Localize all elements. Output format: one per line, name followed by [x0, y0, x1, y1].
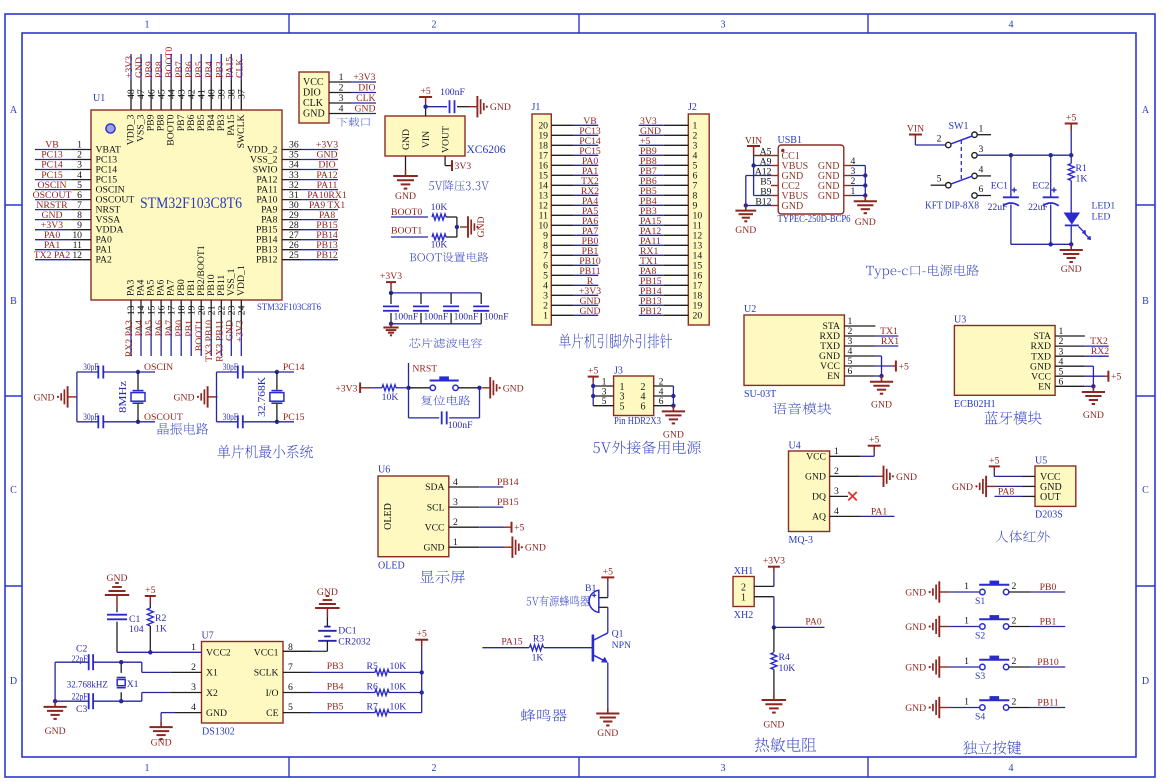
svg-text:3: 3 [979, 144, 984, 155]
wire GND A12-B12 [746, 176, 771, 206]
svg-text:3: 3 [721, 20, 726, 31]
download port pin 4 GND -> GND [303, 104, 376, 120]
label 100nF (reset) [448, 420, 473, 431]
svg-text:32.768kHZ: 32.768kHZ [67, 680, 108, 691]
header J2 pin 17 wire -> PB15 [639, 276, 703, 292]
connector XH1 designator [734, 566, 753, 577]
label 22uF (EC2) [1028, 202, 1049, 213]
svg-text:3: 3 [453, 497, 458, 508]
power +5 above regulator [419, 86, 432, 103]
mcu U1 pin 20 (PB2/BOOT1) bottom wire and net label BOOT1 [194, 245, 207, 356]
header J1 designator [532, 102, 541, 113]
header J1 pin 15 wire -> PA1 [538, 166, 598, 182]
svg-text:C3: C3 [76, 704, 87, 715]
junction bottom-left (filter) [389, 322, 393, 326]
power +5 (U5) [989, 455, 1000, 472]
svg-text:EN: EN [1038, 381, 1051, 392]
wire button S4 to PB11 [1009, 698, 1065, 709]
switch SW1 pin 6 circle [972, 193, 977, 198]
caption 芯片滤波电容 [409, 338, 482, 348]
J3 left rail [592, 383, 594, 406]
svg-text:VCC: VCC [806, 452, 826, 463]
svg-text:R3: R3 [533, 634, 544, 645]
transistor Q1 NPN [593, 633, 608, 663]
label C1 [129, 614, 140, 625]
svg-text:10K: 10K [431, 240, 448, 251]
svg-text:4: 4 [339, 104, 344, 115]
module U2 pin2 wire TX1 [844, 326, 898, 337]
usb USB1 designator [778, 135, 802, 146]
svg-text:10K: 10K [431, 202, 448, 213]
svg-text:3: 3 [191, 682, 196, 693]
svg-text:GND: GND [34, 392, 55, 403]
resistor R6 10K on PB4 row [283, 681, 422, 695]
label C2 [76, 644, 87, 655]
mcu U1 pin 14 (PA4) bottom wire and net label PA4 [134, 280, 147, 356]
capacitor 100nF #2 (filter) [413, 293, 449, 324]
svg-text:KFT DIP-8X8: KFT DIP-8X8 [925, 201, 979, 212]
download port body [299, 72, 329, 123]
mcu U1 pin 22 (PB11) bottom wire and net label RX3 PB11 [214, 275, 227, 362]
svg-text:10K: 10K [390, 681, 407, 692]
module U2 pin 4 (GND) [819, 346, 853, 362]
svg-text:DS1302: DS1302 [202, 727, 235, 738]
svg-text:VIN: VIN [421, 131, 432, 148]
label X1 [127, 679, 139, 690]
wire PA15 to R3 [482, 647, 529, 649]
svg-text:GND: GND [1083, 410, 1104, 421]
wire BOOT0 resistor to corner [446, 217, 457, 227]
usb USB1 body [778, 145, 844, 214]
svg-text:A: A [10, 105, 18, 116]
label 30pF bottom (crystal2) [223, 412, 238, 423]
mcu U1 pin 42 (PB6) top wire and net label PB6 [184, 54, 197, 131]
mcu U1 pin 29 (PA8) with wire and net label PA8 [261, 210, 338, 226]
module U3 pin 6 (EN) [1038, 376, 1063, 392]
svg-text:30pF: 30pF [223, 412, 238, 423]
junction BOOT node [455, 225, 459, 229]
header J2 pin 3 wire -> +5 [639, 136, 698, 152]
wire emitter to gnd [607, 663, 609, 708]
junction usb right 3 [863, 173, 867, 177]
module U4 pin 1 (VCC) [806, 446, 839, 462]
buzzer B1 [589, 590, 599, 612]
ground (DC1) [315, 587, 340, 608]
mcu U1 pin 23 (VSS_1) bottom wire and net label GND [224, 268, 237, 356]
gnd bar tag (U4) [876, 466, 918, 487]
resistor R7 10K on PB5 row [283, 701, 422, 715]
svg-text:DC1: DC1 [338, 626, 356, 637]
svg-text:OSCIN: OSCIN [144, 362, 173, 373]
label B1 [585, 583, 596, 594]
svg-text:2: 2 [432, 763, 437, 774]
caption 复位电路 [421, 396, 470, 406]
label 1K (R1) [1076, 174, 1088, 185]
junction bottom LED [1069, 242, 1073, 246]
power +5 (R5-R7 rail) [415, 629, 428, 647]
junction bottom EC2 [1049, 242, 1053, 246]
svg-text:GND: GND [490, 102, 511, 113]
mcu U1 pin 13 (PA3) bottom wire and net label RX2 PA3 [124, 280, 137, 358]
J3 right rail [672, 386, 674, 406]
module U6 label OLED (rotated) [383, 503, 394, 530]
svg-text:2: 2 [1012, 581, 1017, 592]
button S2 pin numbers [964, 616, 1016, 627]
net label PA15 [501, 636, 522, 647]
module U5 OUT wire PA8 [995, 487, 1036, 498]
caption 5V有源蜂鸣器 [527, 596, 590, 607]
mcu U1 pin 26 (PB13) with wire and net label PB13 [256, 240, 338, 256]
junction R5 rail [420, 670, 424, 674]
svg-text:22uF: 22uF [1028, 202, 1049, 213]
crystal1 left rail [76, 372, 79, 422]
header J1 pin 18 wire -> PC14 [538, 136, 601, 152]
switch SW1 dashed link [960, 140, 962, 180]
module U4 pin 3 (DQ) [812, 486, 839, 502]
junction X1 bottom [119, 699, 123, 703]
svg-text:DQ: DQ [812, 492, 826, 503]
wire NRST to button [409, 387, 431, 389]
label EC1 [991, 181, 1008, 192]
wire X1 top to U7.X1 [121, 662, 201, 672]
svg-text:GND: GND [317, 587, 338, 598]
regulator part name XC6206 [467, 144, 506, 156]
module U2 pin 6 (EN) [827, 366, 852, 382]
net label BOOT1 [391, 226, 422, 237]
svg-text:GND: GND [805, 472, 826, 483]
label NPN [612, 640, 631, 651]
capacitor EC1 22uF [1003, 155, 1019, 244]
svg-text:PB12: PB12 [256, 255, 278, 266]
header J3 inner numbers [620, 382, 646, 413]
ground (buzzer) [596, 708, 619, 739]
svg-text:3V3: 3V3 [455, 161, 472, 172]
svg-text:CLK: CLK [234, 59, 245, 78]
mcu U1 pin 7 (NRST) with wire and net label NRSTR [35, 200, 120, 216]
svg-text:SCL: SCL [427, 502, 445, 513]
button S3 pin numbers [964, 656, 1016, 667]
svg-text:GND: GND [45, 726, 66, 737]
svg-text:4: 4 [453, 477, 458, 488]
rtc U7 right pin 6 (I/O) [266, 682, 293, 699]
button S4 pin numbers [964, 697, 1016, 708]
module U2 part name [744, 389, 776, 400]
mcu U1 pin 24 (VDD_1) bottom wire and net label +3V3 [234, 265, 247, 356]
svg-text:S4: S4 [975, 712, 985, 723]
svg-text:100nF: 100nF [394, 312, 419, 323]
module U4 part name [789, 535, 813, 546]
label 30pF top (crystal1) [83, 362, 98, 373]
module U5 pin name VCC [1040, 472, 1061, 483]
usb USB1 left pin B9 (VBUS) [760, 186, 808, 202]
usb USB1 left pin B12 (GND) [755, 196, 803, 212]
regulator GND pin wire [405, 156, 407, 170]
power tag 3V3 at VOUT [452, 160, 471, 172]
svg-text:6: 6 [659, 396, 664, 407]
module U6 pin 1 (GND) [424, 537, 459, 553]
wire gnd to button S3 [949, 666, 980, 668]
svg-text:30pF: 30pF [83, 412, 98, 423]
module U3 pin 2 (RXD) [1031, 336, 1064, 352]
svg-text:J2: J2 [688, 102, 697, 113]
svg-text:U1: U1 [93, 93, 105, 104]
gnd bar tag (regulator top) [469, 96, 511, 117]
module U6 pin1 wire GND [449, 546, 504, 548]
svg-text:VIN: VIN [745, 135, 762, 146]
download port pin 1 VCC -> +3V3 [303, 72, 376, 88]
header J3 body [614, 376, 654, 416]
mcu U1 pin 41 (PB5) top wire and net label PB5 [194, 54, 207, 131]
header J2 pin 4 wire -> PB9 [639, 146, 698, 162]
regulator pin name VIN [421, 131, 432, 148]
svg-text:Pin HDR2X3: Pin HDR2X3 [614, 416, 661, 427]
label 22uF (EC1) [988, 202, 1009, 213]
header J2 pin 20 wire -> PB12 [639, 306, 703, 322]
junction J3 right pin6 [671, 404, 675, 408]
svg-text:2: 2 [1012, 656, 1017, 667]
svg-text:GND: GND [355, 104, 376, 115]
module U5 body [1035, 466, 1076, 506]
svg-text:2: 2 [432, 20, 437, 31]
capacitor C2 22pF [55, 654, 121, 670]
gnd bar tag (U5) [952, 476, 996, 497]
header J2 pin 5 wire -> PB8 [639, 156, 698, 172]
svg-text:VOUT: VOUT [441, 126, 452, 153]
svg-text:PA1: PA1 [871, 506, 887, 517]
label 10K (BOOT1) [431, 240, 448, 251]
caption Type-c口-电源电路 [866, 265, 979, 279]
svg-text:GND: GND [896, 472, 917, 483]
svg-text:5: 5 [937, 174, 942, 185]
wire cap to GND tag [457, 106, 469, 108]
header J2 body [688, 114, 709, 325]
module U6 part name [378, 561, 405, 572]
svg-text:25: 25 [289, 250, 299, 261]
mcu U1 pin 2 (PC13) with wire and net label PC13 [35, 150, 117, 166]
svg-text:2: 2 [937, 134, 942, 145]
mcu U1 pin 48 (VDD_3) top wire and net label +3V3 [124, 54, 137, 145]
svg-text:+5: +5 [869, 435, 879, 446]
rtc U7 left pin 3 (X2) [191, 682, 218, 699]
wire button S2 to PB1 [1009, 617, 1065, 628]
svg-text:22uF: 22uF [988, 202, 1009, 213]
mcu U1 pin 16 (PA6) bottom wire and net label PA6 [154, 280, 167, 356]
switch SW1 stub pin5 [931, 184, 946, 186]
usb USB1 right pin 1 (GND) [818, 186, 865, 202]
svg-text:D203S: D203S [1035, 510, 1063, 521]
filter caps top rail [391, 289, 481, 293]
svg-text:B: B [1142, 296, 1149, 307]
mcu U1 pin 3 (PC14) with wire and net label PC14 [35, 160, 117, 176]
module U5 GND wire [996, 485, 1035, 487]
header J1 pin 20 wire -> VB [538, 116, 598, 132]
usb USB1 left pin A12 (GND) [755, 166, 803, 182]
header J1 pin 1 wire -> GND [543, 306, 600, 322]
module U3 pin 5 (VCC) [1031, 366, 1063, 382]
svg-text:DIO: DIO [358, 83, 375, 94]
wire VIN node to cap [426, 106, 447, 108]
capacitor 100nF (regulator) [450, 100, 455, 113]
mcu U1 pin 9 (VDDA) with wire and net label +3V3 [35, 220, 123, 236]
power VIN (usb) [745, 135, 762, 155]
rtc U7 designator [202, 631, 214, 642]
svg-text:4: 4 [979, 165, 984, 176]
junction usb right 1 [863, 193, 867, 197]
svg-text:+5: +5 [1066, 113, 1076, 124]
svg-text:U5: U5 [1035, 456, 1047, 467]
button S1 pin numbers [964, 581, 1016, 592]
svg-text:GND: GND [476, 217, 487, 238]
svg-text:1: 1 [964, 697, 969, 708]
header J1 pin 11 wire -> PA5 [539, 206, 599, 222]
ground (power circuit) [1060, 244, 1083, 275]
power +5 (R2) [145, 585, 156, 603]
svg-text:Q1: Q1 [612, 629, 624, 640]
svg-text:PC15: PC15 [283, 412, 305, 423]
svg-text:S2: S2 [975, 631, 985, 642]
svg-text:R7: R7 [367, 701, 378, 712]
svg-text:XC6206: XC6206 [467, 144, 506, 156]
crystal2 left rail [216, 372, 219, 422]
capacitor 100nF #1 (filter) [383, 293, 419, 324]
ground (C1 top) [105, 573, 129, 595]
regulator pin name VOUT [441, 126, 452, 153]
label S4 [975, 712, 985, 723]
svg-text:+5: +5 [420, 86, 430, 97]
label LED [1092, 212, 1111, 223]
wire buzzer to collector [600, 607, 608, 633]
mcu U1 pin 12 (PA2) with wire and net label TX2 PA2 [34, 250, 112, 266]
header J1 pin 3 wire -> +3V3 [543, 286, 601, 302]
svg-text:1: 1 [145, 763, 150, 774]
svg-text:GND: GND [763, 720, 784, 731]
module U4 body [789, 451, 830, 532]
header J1 pin 9 wire -> PA7 [543, 226, 598, 242]
header J3 left pin 1 wire [593, 377, 613, 388]
resistor 10K (reset) [382, 385, 396, 391]
wire sw pin3 to rail [977, 154, 1071, 156]
rtc U7 left pin 4 (GND) [191, 702, 227, 719]
switch SW1 stub pin4 [977, 175, 991, 177]
module U2 designator [744, 304, 756, 315]
svg-text:2: 2 [453, 517, 458, 528]
resistor R2 1K [147, 603, 153, 652]
label 22pF (C3) [72, 692, 88, 703]
power +5 (rail) [1065, 113, 1078, 131]
usb USB1 pin1 mark [781, 149, 784, 152]
svg-text:1: 1 [145, 20, 150, 31]
svg-text:1: 1 [453, 537, 458, 548]
button S1 [979, 581, 1009, 595]
module U6 pin3 wire PB15 [449, 497, 519, 508]
label 104 [129, 624, 144, 635]
svg-text:CLK: CLK [303, 98, 324, 109]
svg-text:1K: 1K [1076, 174, 1088, 185]
caption 蜂鸣器 [521, 709, 567, 722]
usb USB1 right pin 3 (GND) [818, 166, 865, 182]
label R1 [1076, 163, 1087, 174]
mcu U1 pin 17 (PA7) bottom wire and net label PA7 [164, 280, 177, 356]
svg-text:GND: GND [818, 191, 840, 202]
usb USB1 left pin A9 (VBUS) [760, 156, 809, 172]
wire gnd to battery [326, 608, 328, 627]
module U3 pin 1 (STA) [1033, 326, 1063, 342]
svg-text:PB0: PB0 [1040, 582, 1057, 593]
mcu U1 pin 8 (VSSA) with wire and net label GND [35, 210, 120, 226]
svg-text:XH1: XH1 [734, 566, 753, 577]
svg-text:NRST: NRST [412, 364, 437, 375]
gnd bar tag (U6) [503, 537, 546, 558]
mcu U1 pin 1 (VBAT) with wire and net label VB [35, 140, 121, 156]
header J3 right pin 6 wire [654, 396, 674, 407]
module U4 pin3 wire DQ [830, 495, 848, 497]
junction reset right [477, 386, 481, 390]
gnd bar tag (crystal1) [34, 386, 78, 407]
mcu U1 pin 44 (BOOT0) top wire and net label BOOT0 [164, 47, 177, 146]
header J3 left pin 3 wire [593, 387, 613, 398]
svg-text:5: 5 [288, 702, 293, 713]
caption 人体红外 [995, 531, 1049, 543]
caption 显示屏 [420, 571, 465, 584]
wire button to gnd node [458, 387, 479, 389]
svg-text:MQ-3: MQ-3 [789, 535, 813, 546]
svg-text:+5: +5 [417, 629, 427, 640]
mcu U1 pin 33 (PA12) with wire and net label PA12 [256, 170, 338, 186]
svg-text:RX1: RX1 [881, 336, 899, 347]
junction rail EC1 [1009, 153, 1013, 157]
download port pin 2 DIO -> DIO [303, 83, 376, 99]
usb right gnd rail [864, 166, 866, 196]
wire gnd to C1 [116, 595, 118, 606]
svg-text:4: 4 [834, 506, 839, 517]
wire BOOT1 [391, 236, 428, 238]
label S3 [975, 671, 985, 682]
crystal X1 [117, 662, 126, 701]
module U3 body [954, 326, 1055, 396]
usb USB1 left pin B5 (CC2) [760, 176, 800, 192]
svg-text:GND: GND [855, 217, 876, 228]
module U4 pin 2 (GND) [805, 466, 839, 482]
caption 晶振电路 [158, 423, 209, 435]
ground (usb right) [854, 196, 877, 229]
mcu U1 pin 39 (PB3) top wire and net label PB3 [214, 54, 227, 131]
svg-text:GND: GND [174, 392, 195, 403]
svg-text:TYPEC-250D-BCP6: TYPEC-250D-BCP6 [778, 214, 851, 225]
svg-text:S3: S3 [975, 671, 985, 682]
module U5 designator [1035, 456, 1047, 467]
wire gnd to button S1 [949, 591, 980, 593]
svg-text:+5: +5 [899, 362, 909, 373]
svg-text:3: 3 [721, 763, 726, 774]
svg-text:2: 2 [1012, 616, 1017, 627]
svg-text:D: D [10, 676, 17, 687]
mcu U1 pin 31 (PA10) with wire and net label PA10RX1 [256, 190, 347, 206]
regulator XC6206 body [385, 116, 465, 156]
caption BOOT设置电路 [410, 252, 489, 262]
mcu U1 pin-1 mark [106, 124, 115, 133]
svg-text:10K: 10K [390, 661, 407, 672]
junction J3 left pin3 [591, 394, 595, 398]
label EC2 [1032, 181, 1049, 192]
switch SW1 pin 3 circle [972, 153, 977, 158]
svg-text:LED1: LED1 [1092, 201, 1116, 212]
svg-text:U2: U2 [744, 304, 756, 315]
wire VCC2 row [117, 651, 202, 653]
header J1 pin 8 wire -> PB0 [543, 236, 598, 252]
module U6 pin 4 (SDA) [425, 477, 458, 493]
ground (filter caps) [383, 324, 398, 336]
module U3 pin 3 (TXD) [1031, 346, 1063, 362]
